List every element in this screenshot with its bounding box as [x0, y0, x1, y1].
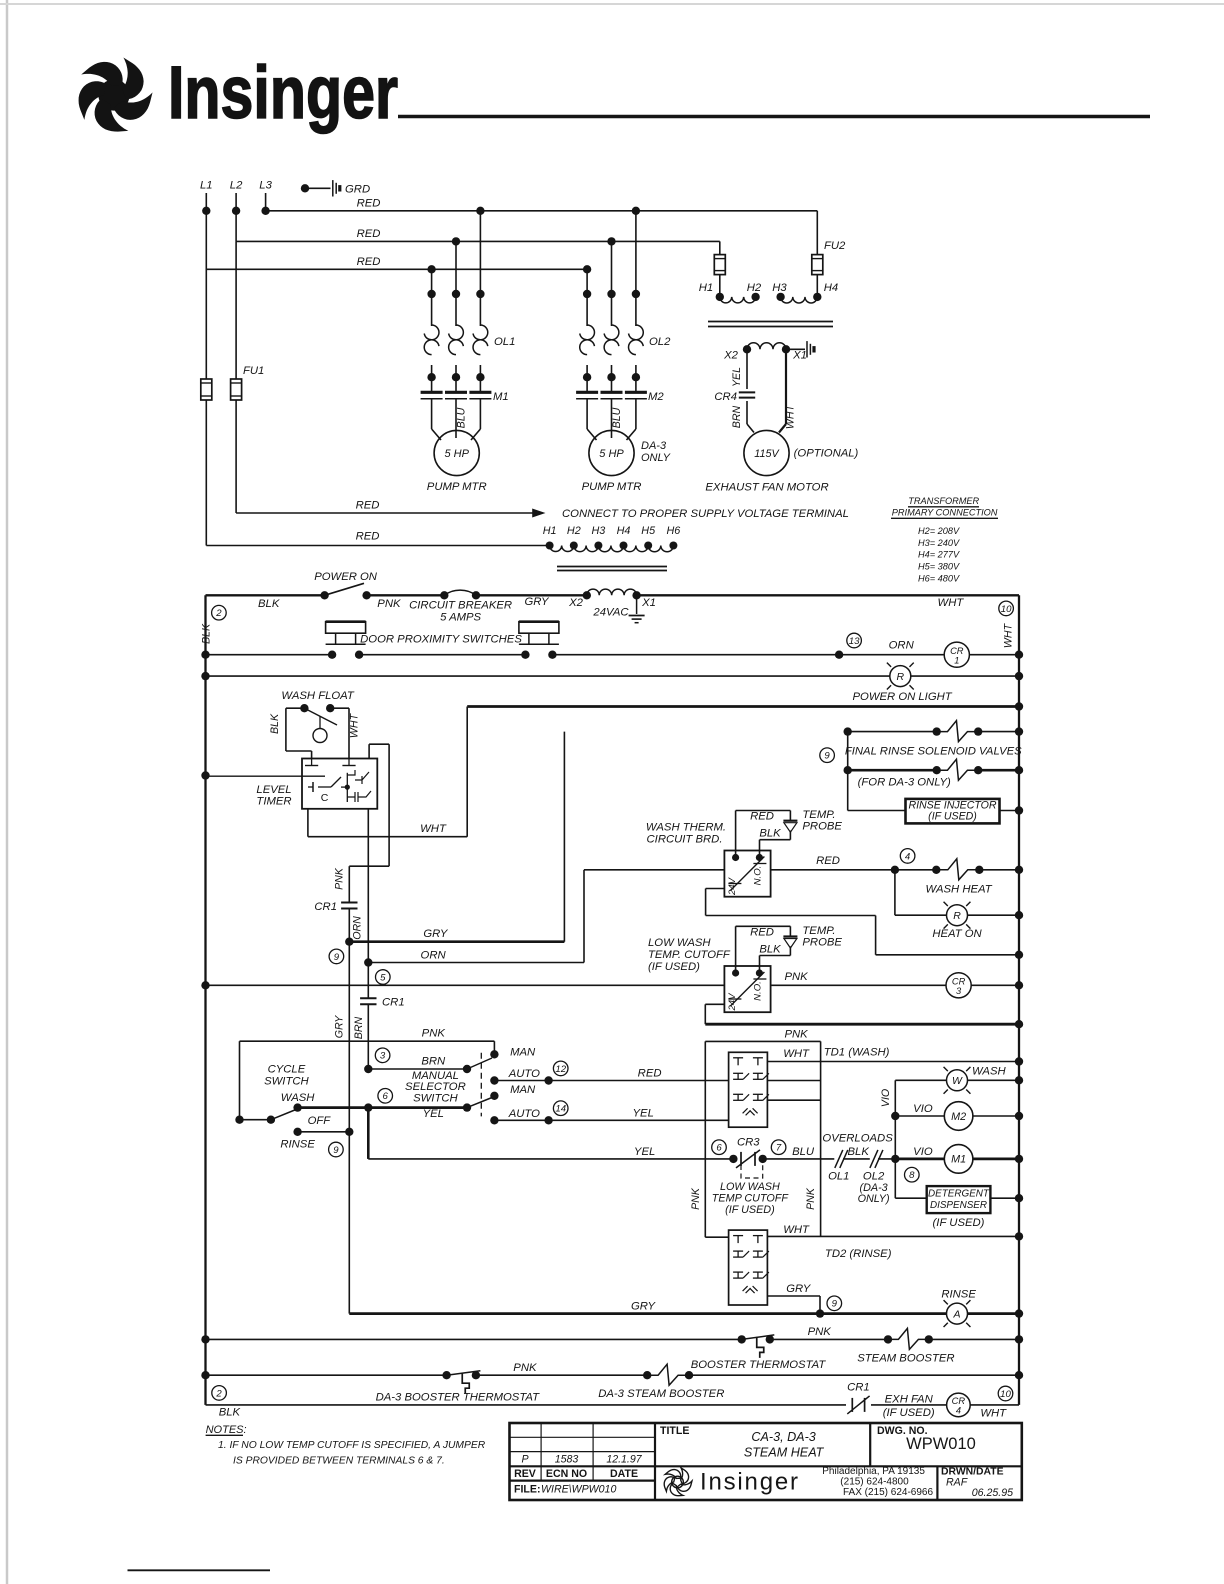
- svg-text:GRY: GRY: [786, 1283, 812, 1295]
- wire L1 below fuse: [205, 400, 207, 546]
- pump motor 2 circle: [589, 430, 634, 475]
- svg-text:CR1: CR1: [847, 1381, 870, 1393]
- svg-text:H1: H1: [543, 525, 557, 537]
- svg-text:AUTO: AUTO: [508, 1108, 540, 1120]
- node rung3 right rail: [1015, 672, 1023, 680]
- svg-text:BRN: BRN: [421, 1055, 446, 1067]
- pilot lamp R power-on: [890, 666, 911, 687]
- svg-text:ORN: ORN: [421, 949, 447, 961]
- wire float left: [286, 707, 305, 709]
- ground GRD symbol: [332, 180, 334, 196]
- svg-text:(IF USED): (IF USED): [928, 811, 977, 823]
- svg-text:9: 9: [832, 1299, 838, 1310]
- svg-text:(IF USED): (IF USED): [725, 1204, 775, 1216]
- terminal circled 2 top: [212, 605, 227, 620]
- overload OL2 coils: [580, 325, 595, 340]
- svg-text:STEAM HEAT: STEAM HEAT: [744, 1446, 825, 1460]
- wire YEL rung d: [878, 1158, 895, 1160]
- motor coil M2: [944, 1102, 973, 1131]
- svg-text:FU2: FU2: [824, 240, 846, 252]
- svg-text:CONNECT TO PROPER SUPPLY V: CONNECT TO PROPER SUPPLY VOLTAGE TERMINA…: [562, 508, 849, 520]
- pilot lamp W: [947, 1070, 968, 1091]
- svg-text:CA-3, DA-3: CA-3, DA-3: [751, 1430, 815, 1444]
- svg-text:M1: M1: [951, 1154, 966, 1166]
- selector blade 2: [463, 1103, 471, 1111]
- node final rinse mid: [844, 766, 852, 774]
- node H5 autotransformer: [644, 542, 652, 550]
- wire YEL rung c: [843, 1158, 870, 1160]
- timer TD2 block: [729, 1230, 768, 1305]
- wire rung2 b: [360, 654, 525, 656]
- autotransformer coil 1: [550, 546, 574, 552]
- header rule: [398, 115, 1150, 118]
- ground 24VAC: [636, 595, 638, 614]
- wire da3 rung b: [476, 1374, 647, 1376]
- svg-text:A: A: [952, 1308, 960, 1320]
- circuit breaker CB1: [440, 591, 448, 599]
- solenoid valve 1: [933, 727, 941, 735]
- svg-text:X2: X2: [723, 350, 739, 362]
- svg-text:3: 3: [956, 986, 962, 996]
- node final rinse top: [844, 727, 852, 735]
- dashed low wash bracket: [741, 1165, 763, 1178]
- svg-text:(IF USED): (IF USED): [933, 1217, 985, 1229]
- contact OL2 aux: [870, 1150, 878, 1168]
- svg-text:BLK: BLK: [219, 1406, 241, 1418]
- svg-text:LOW WASH: LOW WASH: [648, 937, 711, 949]
- svg-text:PUMP MTR: PUMP MTR: [582, 481, 642, 493]
- node M1 rail: [1015, 1155, 1023, 1163]
- svg-text:N.O.: N.O.: [752, 866, 763, 886]
- svg-text:X1: X1: [792, 350, 807, 362]
- wire td1 left vertical: [704, 1041, 706, 1237]
- wire PNK drop: [348, 866, 350, 902]
- pump motor 2 leads: [586, 399, 588, 429]
- svg-text:CYCLE: CYCLE: [268, 1064, 306, 1076]
- node X1: [782, 345, 790, 353]
- node VIO junction M1: [891, 1155, 899, 1163]
- terminal circled 9 td2: [827, 1296, 842, 1311]
- svg-text:DA-3 STEAM BOOSTER: DA-3 STEAM BOOSTER: [598, 1388, 724, 1400]
- wire top rail c: [476, 594, 587, 596]
- svg-text:H6: H6: [666, 525, 680, 537]
- wire L2 below fuse: [235, 400, 237, 513]
- svg-text:C: C: [321, 792, 329, 804]
- wire level timer out WHT: [307, 809, 309, 837]
- svg-text:H4= 277V: H4= 277V: [918, 550, 960, 560]
- node H1 autotransformer: [546, 542, 554, 550]
- wire RED1 to FU2: [816, 211, 818, 255]
- solenoid valve 2: [933, 766, 941, 774]
- svg-text:14: 14: [555, 1104, 566, 1115]
- svg-text:SWITCH: SWITCH: [264, 1075, 309, 1087]
- svg-text:OL2: OL2: [649, 336, 671, 348]
- wire M1 coil: [895, 1158, 944, 1161]
- svg-text:9: 9: [333, 1145, 339, 1156]
- node H4: [813, 293, 821, 301]
- svg-text:WASH THERM.: WASH THERM.: [646, 822, 726, 834]
- ground GRD stub: [301, 184, 309, 192]
- relay coil CR3: [946, 973, 971, 998]
- node H2 autotransformer: [570, 542, 578, 550]
- svg-text:H6= 480V: H6= 480V: [918, 573, 960, 583]
- svg-text:GRY: GRY: [524, 596, 550, 608]
- svg-text:TIMER: TIMER: [256, 796, 291, 808]
- svg-text:M2: M2: [648, 391, 664, 403]
- svg-text:TEMP. CUTOFF: TEMP. CUTOFF: [648, 949, 731, 961]
- wire GRY td2: [767, 1295, 820, 1297]
- node M2 rail: [1015, 1112, 1023, 1120]
- svg-text:RED: RED: [357, 198, 381, 210]
- node low wash return rail: [1015, 1020, 1023, 1028]
- node rung2 left rail: [201, 651, 209, 659]
- svg-text:PROBE: PROBE: [802, 821, 842, 833]
- autotransformer coil 4: [624, 546, 649, 552]
- pump motor 1 feeder nodes: [427, 265, 435, 273]
- terminal circled 4: [900, 849, 915, 864]
- node rung2 right rail: [1015, 651, 1023, 659]
- wire rung2 a: [206, 654, 332, 656]
- svg-text:PRIMARY CONNECTION: PRIMARY CONNECTION: [892, 508, 998, 518]
- terminal circled 12: [553, 1061, 568, 1076]
- svg-text:10: 10: [1001, 604, 1012, 615]
- wire final rinse rung1 b: [978, 731, 1019, 733]
- wire CR4 to fan: [746, 401, 748, 424]
- svg-text:7: 7: [776, 1143, 782, 1154]
- wire RED bus 1: [266, 210, 818, 212]
- node W rail: [1015, 1076, 1023, 1084]
- wire da3 rung a: [206, 1374, 447, 1376]
- svg-text:WIRE\WPW010: WIRE\WPW010: [541, 1484, 616, 1496]
- svg-text:24V: 24V: [727, 876, 738, 896]
- wire X2 down: [746, 349, 748, 389]
- svg-text:MANUAL: MANUAL: [412, 1070, 459, 1082]
- wire final rinse rung1: [848, 731, 937, 733]
- node WHT td2 rail: [1015, 1232, 1023, 1240]
- cycle switch blade: [235, 1116, 243, 1124]
- svg-text:5: 5: [380, 972, 386, 983]
- wire RED to TD1: [549, 1080, 729, 1082]
- float switch wash: [300, 704, 308, 712]
- svg-text:YEL: YEL: [634, 1146, 655, 1158]
- wire final rinse rung2: [848, 769, 937, 772]
- title block rev rows: [510, 1436, 656, 1438]
- node CR3 rail: [1015, 981, 1023, 989]
- temp probe diode 2: [783, 935, 797, 937]
- svg-text:WASH: WASH: [281, 1092, 316, 1104]
- wire left rail to level timer: [206, 775, 303, 777]
- wire booster rung c: [929, 1338, 1019, 1340]
- svg-text:RED: RED: [816, 855, 840, 867]
- transformer 24VAC secondary: [583, 591, 591, 599]
- wire heat-on branch: [894, 870, 896, 915]
- wire YEL to TD1: [549, 1119, 729, 1121]
- svg-text:(215) 624-4800: (215) 624-4800: [840, 1477, 909, 1488]
- svg-text:24V: 24V: [727, 992, 738, 1012]
- svg-text:RINSE: RINSE: [280, 1138, 315, 1150]
- wire da3 rung c: [689, 1374, 1019, 1376]
- svg-text:6: 6: [716, 1143, 722, 1154]
- svg-text:FU1: FU1: [243, 365, 264, 377]
- svg-text:ONLY: ONLY: [641, 452, 671, 464]
- terminal circled 10 bottom: [998, 1386, 1013, 1401]
- node wash heat: [891, 866, 899, 874]
- svg-text:PROBE: PROBE: [802, 936, 842, 948]
- pump motor 2 feeder wires: [586, 269, 588, 294]
- wire WHT td2: [767, 1235, 1019, 1237]
- svg-text:H4: H4: [824, 282, 838, 294]
- svg-text:EXH FAN: EXH FAN: [885, 1394, 934, 1406]
- wire W lamp rung: [895, 1079, 946, 1081]
- title dwg divider: [869, 1423, 871, 1466]
- node da3 left rail: [201, 1371, 209, 1379]
- svg-text:WHT: WHT: [783, 1048, 810, 1060]
- fuse FU1 a: [201, 379, 212, 400]
- svg-text:OVERLOADS: OVERLOADS: [822, 1133, 893, 1145]
- wire RINSE: [293, 1128, 301, 1136]
- wire rung5 pnk: [206, 984, 725, 986]
- svg-text:WPW010: WPW010: [906, 1435, 976, 1453]
- autotransformer core: [557, 566, 667, 568]
- wire booster rung a: [206, 1338, 742, 1340]
- node rung5 left rail: [201, 981, 209, 989]
- capacitor CR4: [739, 391, 755, 393]
- svg-text:VIO: VIO: [880, 1089, 892, 1107]
- svg-text:06.25.95: 06.25.95: [972, 1487, 1013, 1499]
- svg-text:TEMP.: TEMP.: [802, 809, 835, 821]
- svg-text:M1: M1: [493, 391, 509, 403]
- node H2: [751, 293, 759, 301]
- wire WASH thick: [298, 1106, 467, 1109]
- svg-text:YEL: YEL: [423, 1108, 444, 1120]
- svg-text:6: 6: [383, 1091, 389, 1102]
- node GRY rail: [1015, 1309, 1023, 1317]
- switch POWER ON: [320, 591, 328, 599]
- capacitor CR1 lower: [360, 997, 376, 999]
- node BRN selector: [364, 1065, 372, 1073]
- wire RED to H1 autotransformer: [206, 545, 549, 547]
- ladder left rail: [204, 595, 206, 1405]
- svg-text:POWER ON LIGHT: POWER ON LIGHT: [853, 691, 953, 703]
- svg-text:115V: 115V: [754, 448, 780, 460]
- wire WHT td1: [767, 1061, 1019, 1063]
- level timer internals: [308, 786, 313, 788]
- wire GRY vertical down: [348, 942, 350, 1314]
- page footer line: [128, 1569, 271, 1571]
- svg-text:DETERGENT: DETERGENT: [928, 1189, 990, 1200]
- contact CR3: [729, 1155, 737, 1163]
- wire L2 drop: [235, 193, 237, 241]
- svg-text:BOOSTER THERMOSTAT: BOOSTER THERMOSTAT: [691, 1359, 827, 1371]
- svg-text:BLK: BLK: [258, 598, 280, 610]
- wire CR3 rung b: [971, 984, 1019, 986]
- svg-text:RINSE: RINSE: [941, 1288, 976, 1300]
- wire rung2 c: [553, 654, 944, 656]
- relay wash therm box: [724, 851, 770, 897]
- svg-text:FILE:: FILE:: [514, 1484, 540, 1496]
- terminal circled 8: [905, 1167, 920, 1182]
- node booster rail: [1015, 1335, 1023, 1343]
- svg-text:CR4: CR4: [714, 391, 737, 403]
- svg-text:POWER ON: POWER ON: [314, 571, 378, 583]
- svg-text:PNK: PNK: [422, 1028, 446, 1040]
- wire final rinse rung2 b: [978, 769, 1019, 772]
- node final rinse rung2 rail: [1015, 766, 1023, 774]
- door proximity switch 1: [326, 622, 366, 634]
- transformer T1 secondary coil: [747, 343, 786, 350]
- wire RED bus 3: [206, 268, 587, 270]
- motor coil M1: [944, 1145, 973, 1174]
- svg-text:HEAT ON: HEAT ON: [932, 928, 982, 940]
- node H6 autotransformer: [669, 542, 677, 550]
- svg-text:BLU: BLU: [792, 1146, 815, 1158]
- low wash probe wiring: [735, 926, 737, 973]
- wire PNK selector top: [240, 1040, 495, 1042]
- node terminal 13: [835, 651, 843, 659]
- svg-text:9: 9: [824, 751, 830, 762]
- wire top rail b: [367, 594, 445, 596]
- wire YEL rung b: [763, 1158, 835, 1160]
- svg-text:PNK: PNK: [513, 1362, 537, 1374]
- svg-text:STEAM BOOSTER: STEAM BOOSTER: [857, 1352, 954, 1364]
- wire rinse injector left: [848, 810, 906, 812]
- overload OL2 lower wires: [586, 365, 588, 377]
- svg-text:H4: H4: [617, 525, 631, 537]
- svg-text:H5= 380V: H5= 380V: [918, 562, 960, 572]
- svg-text:L1: L1: [200, 180, 213, 192]
- svg-text:TEMP.: TEMP.: [802, 925, 835, 937]
- svg-text:WHT: WHT: [1003, 622, 1015, 648]
- wire final rinse drop: [847, 732, 849, 811]
- terminal circled 3: [375, 1048, 390, 1063]
- svg-text:4: 4: [905, 851, 910, 862]
- wire td1 taps: [767, 1080, 820, 1082]
- node detergent rail: [1015, 1194, 1023, 1202]
- exhaust fan motor circle: [744, 430, 789, 475]
- svg-text:PUMP MTR: PUMP MTR: [427, 481, 487, 493]
- svg-text:DA-3: DA-3: [641, 440, 667, 452]
- svg-text:(IF USED): (IF USED): [883, 1407, 935, 1419]
- wire M1 rail: [973, 1158, 1019, 1161]
- svg-text:H1: H1: [699, 282, 713, 294]
- svg-text:2: 2: [215, 608, 222, 619]
- terminal circled 9 gry: [329, 949, 344, 964]
- svg-text:BLK: BLK: [759, 943, 781, 955]
- svg-text:H2: H2: [567, 525, 581, 537]
- svg-text:WHT: WHT: [938, 597, 965, 609]
- wire level timer out mid: [367, 809, 369, 963]
- svg-text:VIO: VIO: [913, 1103, 933, 1115]
- wire low wash return: [705, 1003, 724, 1005]
- svg-text:FINAL RINSE SOLENOID VALVES: FINAL RINSE SOLENOID VALVES: [845, 746, 1022, 758]
- wire ORN drop: [348, 909, 350, 942]
- wire YEL rung: [368, 1158, 733, 1160]
- svg-text:(IF USED): (IF USED): [648, 961, 700, 973]
- overload OL1 lower wires: [431, 365, 433, 377]
- relay coil CR4: [947, 1393, 971, 1417]
- wire W lamp rail: [968, 1079, 1020, 1081]
- level timer terminal a: [305, 765, 318, 767]
- wire AUTO2 to 14: [494, 1119, 548, 1121]
- svg-text:GRY: GRY: [631, 1300, 657, 1312]
- svg-text:R: R: [897, 671, 905, 683]
- svg-text:PNK: PNK: [784, 1028, 808, 1040]
- svg-text:WHT: WHT: [785, 403, 797, 429]
- svg-text:DISPENSER: DISPENSER: [930, 1200, 987, 1211]
- svg-text:CIRCUIT BRD.: CIRCUIT BRD.: [647, 834, 723, 846]
- svg-text:13: 13: [849, 636, 860, 647]
- wire bottom rung b: [871, 1404, 947, 1406]
- svg-text:RED: RED: [357, 256, 381, 268]
- svg-text:WHT: WHT: [980, 1408, 1007, 1420]
- wire X1 down to fan: [785, 349, 787, 424]
- wire WASH down YEL: [367, 1108, 370, 1159]
- wire M2 rail: [973, 1115, 1019, 1117]
- svg-text:H3= 240V: H3= 240V: [918, 538, 960, 548]
- svg-text:LOW WASH: LOW WASH: [720, 1181, 780, 1193]
- pump motor 2 feeder nodes: [583, 265, 591, 273]
- node rung3 left rail: [201, 672, 209, 680]
- wire L1 drop: [205, 193, 207, 270]
- svg-text:1583: 1583: [555, 1453, 579, 1465]
- svg-text:RED: RED: [750, 811, 774, 823]
- svg-text:PNK: PNK: [377, 598, 401, 610]
- node booster left rail: [201, 1335, 209, 1343]
- svg-text:12.1.97: 12.1.97: [606, 1453, 642, 1465]
- level timer terminal b: [342, 765, 355, 767]
- svg-text:1. IF NO LOW TEMP CUTOFF IS SP: 1. IF NO LOW TEMP CUTOFF IS SPECIFIED, A…: [218, 1440, 486, 1451]
- svg-text:H3: H3: [591, 525, 605, 537]
- svg-text:8: 8: [909, 1170, 915, 1181]
- node GRY td2 join: [816, 1309, 824, 1317]
- node H3: [776, 293, 784, 301]
- svg-text:3: 3: [380, 1051, 386, 1062]
- node final rinse rung1 rail: [1015, 727, 1023, 735]
- terminal circled 5: [376, 970, 391, 985]
- heater da3 steam booster: [643, 1371, 651, 1379]
- wire AUTO1 to 12: [494, 1080, 548, 1082]
- wire heat-on b: [968, 914, 1020, 916]
- wire WHT neutral: [467, 705, 1019, 708]
- thermostat booster: [738, 1335, 746, 1343]
- wire rung2 d: [969, 654, 1019, 656]
- wire PNK td1 top: [705, 1040, 820, 1042]
- svg-text:YEL: YEL: [633, 1108, 654, 1120]
- svg-text:TRANSFORMER: TRANSFORMER: [908, 496, 979, 506]
- svg-text:BLU: BLU: [611, 407, 623, 428]
- node heat-on rail: [1015, 911, 1023, 919]
- svg-text:M2: M2: [951, 1111, 966, 1123]
- svg-text:12: 12: [555, 1064, 566, 1075]
- svg-text:P: P: [521, 1453, 528, 1465]
- wire float right: [330, 707, 349, 709]
- wire bottom rung c: [970, 1404, 1019, 1406]
- svg-text:TEMP CUTOFF: TEMP CUTOFF: [712, 1193, 790, 1205]
- node MAN1: [490, 1050, 498, 1058]
- scan edge left: [6, 0, 9, 1584]
- autotransformer coil 5: [648, 546, 673, 552]
- wire GRY bottom rail: [968, 1312, 1020, 1315]
- door proximity switch 2: [519, 622, 559, 634]
- svg-text:FAX (215) 624-6966: FAX (215) 624-6966: [843, 1487, 933, 1498]
- svg-text:OL1: OL1: [494, 336, 515, 348]
- svg-text:W: W: [952, 1075, 963, 1087]
- node ORN junction: [364, 958, 372, 966]
- transformer T1 primary coil a: [720, 297, 756, 303]
- svg-text:GRY: GRY: [423, 928, 449, 940]
- transformer T1 core: [708, 321, 833, 323]
- svg-text:H2: H2: [747, 282, 762, 294]
